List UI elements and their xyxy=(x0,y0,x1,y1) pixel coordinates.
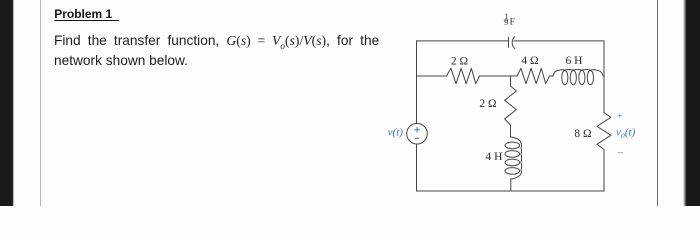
svg-text:F: F xyxy=(510,18,515,28)
svg-text:8 Ω: 8 Ω xyxy=(574,128,591,140)
svg-text:6 H: 6 H xyxy=(566,55,583,67)
svg-text:2 Ω: 2 Ω xyxy=(451,56,468,68)
svg-text:2 Ω: 2 Ω xyxy=(479,98,496,110)
svg-text:v(t): v(t) xyxy=(388,126,404,138)
svg-text:9: 9 xyxy=(504,18,508,27)
svg-text:−: − xyxy=(617,147,623,159)
svg-text:vo(t): vo(t) xyxy=(616,126,636,139)
svg-text:4 H: 4 H xyxy=(486,151,503,163)
svg-text:4 Ω: 4 Ω xyxy=(521,55,538,67)
svg-text:+: + xyxy=(617,112,622,122)
